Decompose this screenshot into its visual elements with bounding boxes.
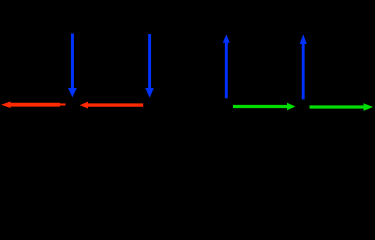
blue up arrow 1 [223, 34, 230, 98]
blue down arrow 1 (left) [68, 34, 77, 98]
red left arrow 2 [80, 102, 143, 109]
blue down arrow 2 [145, 34, 154, 98]
green right arrow 1 [233, 103, 296, 111]
blue up arrow 2 (right) [300, 34, 307, 99]
red left arrow 1 (leftmost) [1, 101, 66, 108]
green right arrow 2 (rightmost) [310, 103, 374, 111]
